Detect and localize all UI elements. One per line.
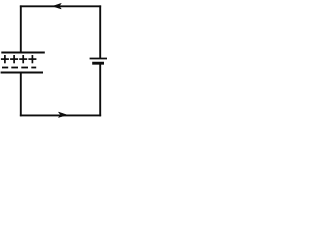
wire: bottom horizontal [20,114,101,116]
wire: left side upper segment [20,5,22,52]
wire: top horizontal [20,5,101,7]
wire: left side lower segment [20,73,22,117]
battery negative terminal (short thick line) [92,62,104,65]
battery positive terminal (long thin line) [90,58,107,60]
capacitor bottom plate [1,71,43,73]
wire: right side lower segment [99,63,101,116]
current arrow pointing right on bottom wire [58,112,67,118]
capacitor top plate [1,52,45,54]
negative charges −−−− above capacitor bottom plate [2,67,36,69]
wire: right side upper segment [99,5,101,58]
positive charges ++++ on capacitor top plate [1,55,37,63]
current arrow pointing left on top wire [53,3,62,9]
